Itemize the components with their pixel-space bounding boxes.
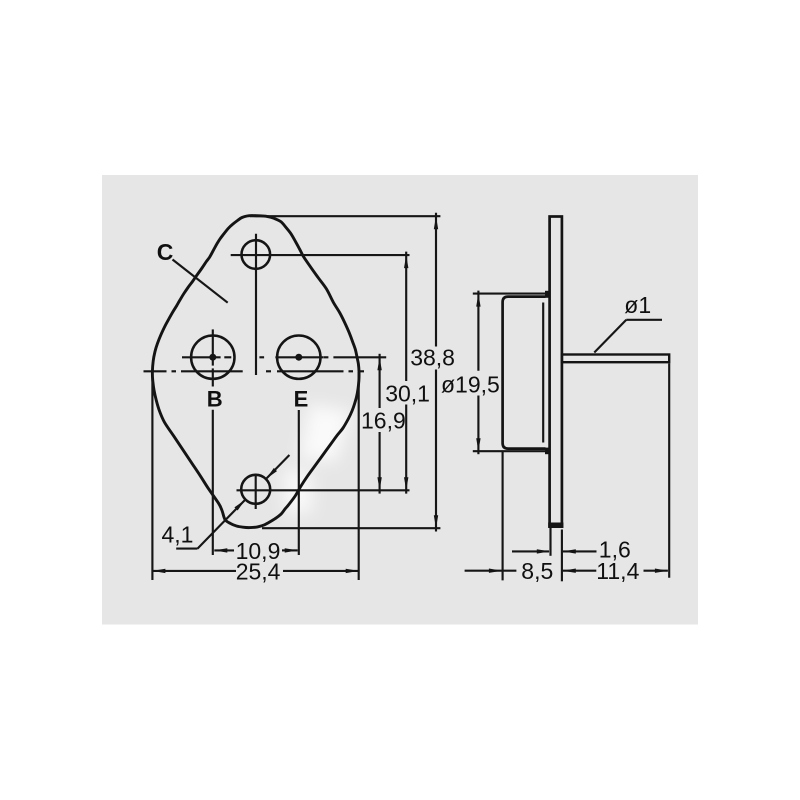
svg-text:38,8: 38,8 (410, 345, 455, 371)
svg-text:ø19,5: ø19,5 (441, 371, 500, 397)
svg-text:ø1: ø1 (624, 292, 651, 318)
svg-text:11,4: 11,4 (596, 558, 639, 584)
svg-text:8,5: 8,5 (521, 558, 553, 584)
svg-text:25,4: 25,4 (236, 558, 281, 584)
svg-text:B: B (207, 386, 223, 411)
svg-text:E: E (294, 387, 309, 412)
svg-text:C: C (157, 239, 174, 265)
svg-text:4,1: 4,1 (162, 522, 194, 548)
svg-text:30,1: 30,1 (385, 380, 430, 406)
svg-text:16,9: 16,9 (361, 407, 406, 433)
